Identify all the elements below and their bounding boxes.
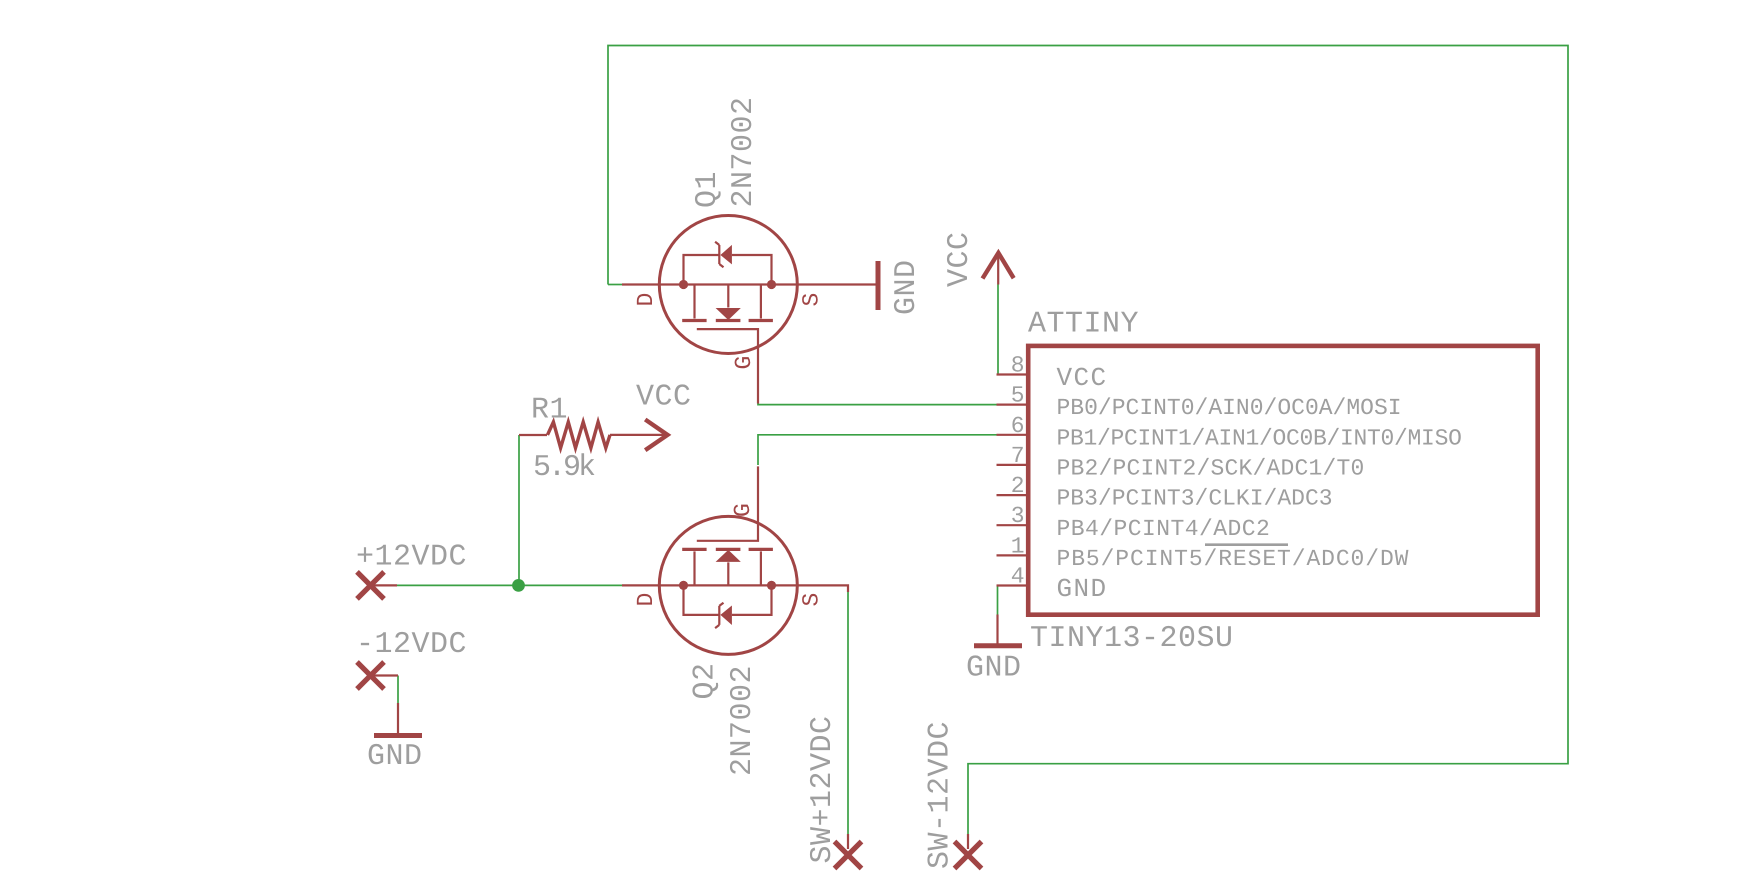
svg-text:1: 1: [1011, 533, 1025, 559]
svg-text:2: 2: [1011, 473, 1025, 499]
svg-text:D: D: [633, 593, 659, 607]
svg-text:4: 4: [1011, 564, 1025, 590]
svg-text:VCC: VCC: [1057, 363, 1108, 393]
svg-text:8: 8: [1011, 353, 1025, 379]
svg-text:2N7002: 2N7002: [727, 96, 761, 207]
svg-text:D: D: [633, 293, 659, 307]
svg-text:5: 5: [1011, 383, 1025, 409]
svg-text:PB2/PCINT2/SCK/ADC1/T0: PB2/PCINT2/SCK/ADC1/T0: [1057, 456, 1365, 482]
svg-text:GND: GND: [1057, 574, 1108, 604]
svg-text:+12VDC: +12VDC: [356, 541, 467, 575]
svg-text:PB1/PCINT1/AIN1/OC0B/INT0/MISO: PB1/PCINT1/AIN1/OC0B/INT0/MISO: [1057, 425, 1462, 451]
svg-text:GND: GND: [966, 652, 1022, 686]
svg-text:-12VDC: -12VDC: [356, 628, 467, 662]
svg-text:GND: GND: [890, 259, 924, 315]
svg-text:3: 3: [1011, 503, 1025, 529]
svg-text:6: 6: [1011, 413, 1025, 439]
svg-text:Q2: Q2: [689, 662, 723, 699]
svg-text:VCC: VCC: [943, 231, 977, 287]
svg-text:2N7002: 2N7002: [726, 665, 760, 776]
svg-text:TINY13-20SU: TINY13-20SU: [1030, 622, 1234, 656]
svg-text:Q1: Q1: [691, 171, 725, 208]
svg-text:VCC: VCC: [636, 381, 692, 415]
svg-text:SW+12VDC: SW+12VDC: [806, 715, 840, 863]
svg-text:5.9k: 5.9k: [533, 451, 595, 485]
svg-text:PB3/PCINT3/CLKI/ADC3: PB3/PCINT3/CLKI/ADC3: [1057, 486, 1333, 512]
svg-text:S: S: [799, 293, 825, 307]
svg-text:R1: R1: [531, 394, 568, 428]
svg-text:SW-12VDC: SW-12VDC: [924, 721, 958, 869]
svg-text:GND: GND: [367, 740, 423, 774]
svg-text:PB5/PCINT5/RESET/ADC0/DW: PB5/PCINT5/RESET/ADC0/DW: [1057, 546, 1410, 572]
svg-text:ATTINY: ATTINY: [1028, 308, 1139, 342]
svg-text:7: 7: [1011, 443, 1025, 469]
svg-text:G: G: [730, 503, 756, 517]
svg-text:S: S: [799, 593, 825, 607]
svg-text:PB0/PCINT0/AIN0/OC0A/MOSI: PB0/PCINT0/AIN0/OC0A/MOSI: [1057, 395, 1402, 421]
svg-text:G: G: [731, 356, 757, 370]
svg-text:PB4/PCINT4/ADC2: PB4/PCINT4/ADC2: [1057, 516, 1271, 542]
